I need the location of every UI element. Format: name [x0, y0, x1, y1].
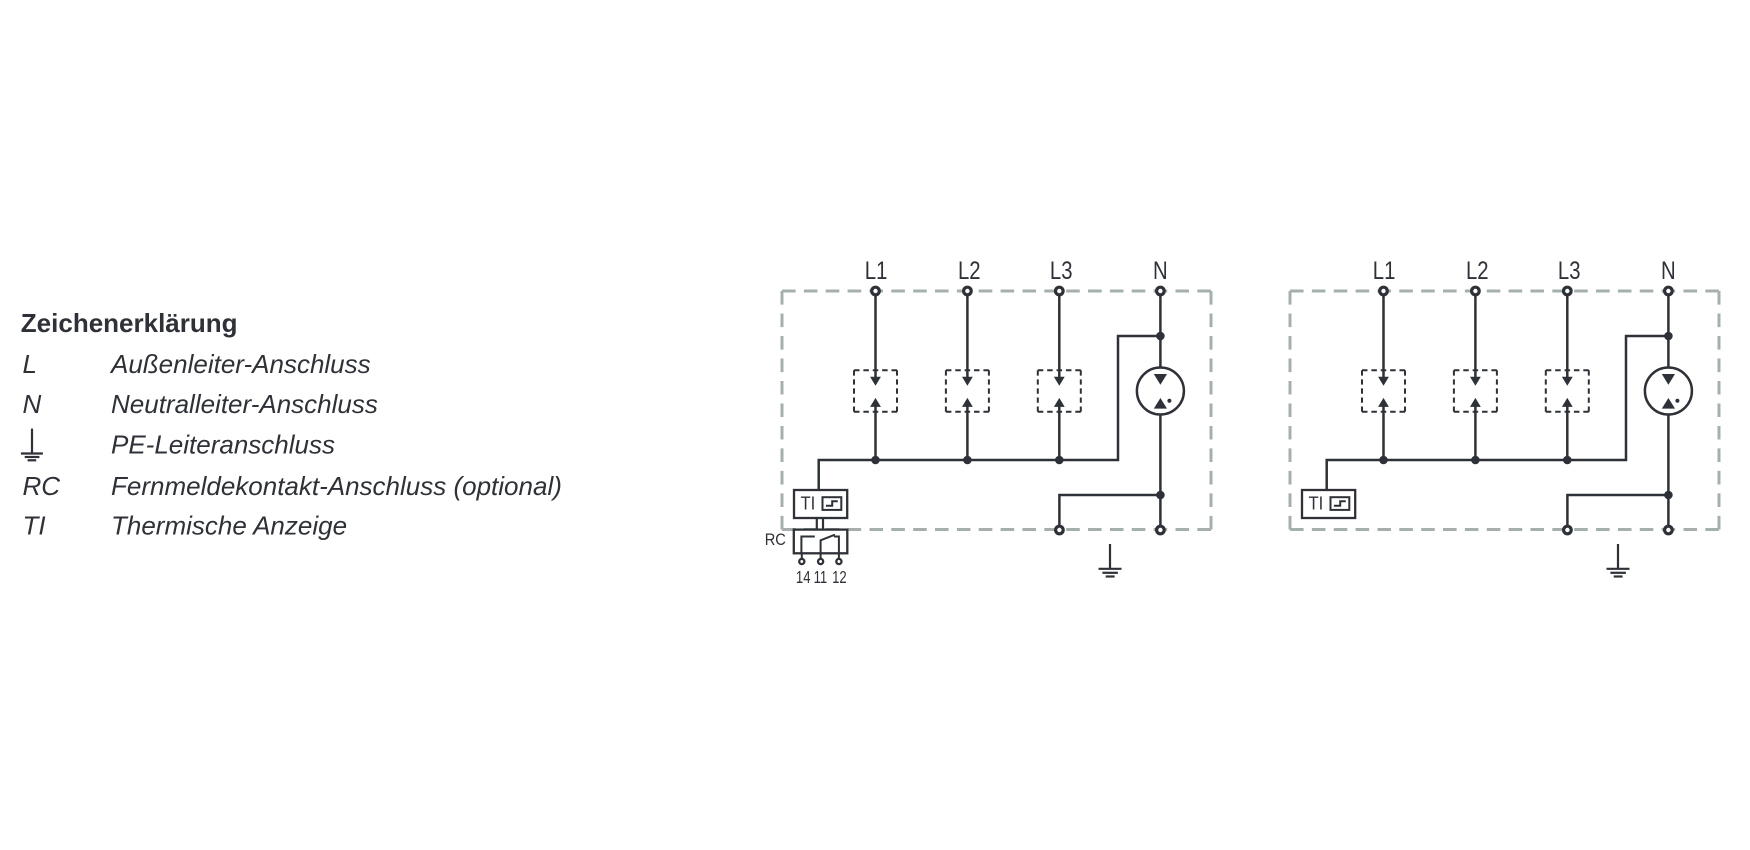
svg-text:L: L	[23, 349, 37, 379]
svg-text:Zeichenerklärung: Zeichenerklärung	[21, 308, 238, 338]
svg-text:RC: RC	[765, 531, 786, 549]
svg-text:11: 11	[814, 568, 828, 587]
svg-text:Thermische Anzeige: Thermische Anzeige	[111, 510, 347, 540]
svg-text:TI: TI	[801, 493, 816, 514]
svg-text:12: 12	[832, 568, 847, 587]
svg-text:L3: L3	[1050, 256, 1073, 285]
svg-text:Außenleiter-Anschluss: Außenleiter-Anschluss	[109, 349, 371, 379]
svg-text:N: N	[23, 389, 42, 419]
svg-text:N: N	[1153, 256, 1168, 285]
svg-text:TI: TI	[23, 510, 46, 540]
svg-text:L2: L2	[958, 256, 981, 285]
svg-text:Neutralleiter-Anschluss: Neutralleiter-Anschluss	[111, 389, 378, 419]
svg-text:Fernmeldekontakt-Anschluss (op: Fernmeldekontakt-Anschluss (optional)	[111, 471, 562, 501]
svg-text:PE-Leiteranschluss: PE-Leiteranschluss	[111, 429, 335, 459]
svg-text:14: 14	[796, 568, 811, 587]
svg-text:L1: L1	[865, 256, 888, 285]
svg-text:RC: RC	[23, 471, 61, 501]
